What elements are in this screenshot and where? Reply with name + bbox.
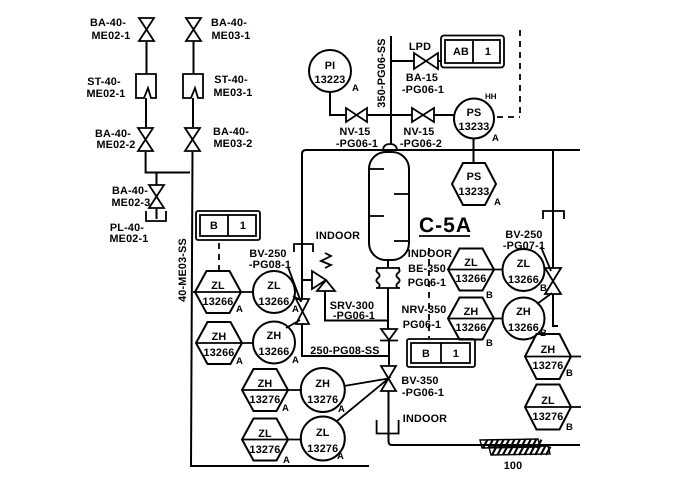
svg-text:PS: PS <box>467 171 482 183</box>
svg-text:INDOOR: INDOOR <box>408 248 452 260</box>
svg-text:INDOOR: INDOOR <box>403 413 447 425</box>
svg-text:ME02-2: ME02-2 <box>96 139 135 151</box>
svg-text:-PG07-1: -PG07-1 <box>503 240 545 252</box>
svg-text:A: A <box>292 304 299 315</box>
svg-text:ST-40-: ST-40- <box>87 76 121 88</box>
svg-text:ZH: ZH <box>315 378 330 390</box>
svg-text:PS: PS <box>467 107 482 119</box>
svg-text:ZL: ZL <box>316 427 330 439</box>
svg-text:BA-40-: BA-40- <box>112 185 148 197</box>
svg-text:A: A <box>338 404 345 415</box>
svg-text:250-PG08-SS: 250-PG08-SS <box>310 345 379 357</box>
svg-text:-PG08-1: -PG08-1 <box>249 259 291 271</box>
svg-text:B: B <box>566 368 573 379</box>
svg-text:C-5A: C-5A <box>419 214 472 237</box>
svg-text:1: 1 <box>485 46 491 58</box>
svg-text:13233: 13233 <box>458 121 489 133</box>
svg-text:B: B <box>486 338 493 349</box>
svg-text:13276: 13276 <box>532 360 563 372</box>
svg-text:13266: 13266 <box>508 322 539 334</box>
svg-text:A: A <box>292 355 299 366</box>
svg-text:ME03-1: ME03-1 <box>213 87 252 99</box>
svg-text:ZL: ZL <box>258 428 272 440</box>
svg-text:13266: 13266 <box>508 274 539 286</box>
svg-text:LPD: LPD <box>409 41 431 53</box>
svg-text:-PG06-1: -PG06-1 <box>336 138 378 150</box>
svg-text:40-ME03-SS: 40-ME03-SS <box>177 238 189 302</box>
svg-text:ZH: ZH <box>464 306 479 318</box>
svg-text:13266: 13266 <box>258 296 289 308</box>
svg-text:-PG06-2: -PG06-2 <box>400 138 442 150</box>
svg-text:-PG06-1: -PG06-1 <box>402 84 444 96</box>
svg-text:A: A <box>492 133 499 144</box>
svg-text:A: A <box>352 83 359 94</box>
svg-text:13266: 13266 <box>203 347 234 359</box>
svg-text:A: A <box>337 451 344 462</box>
svg-text:1: 1 <box>240 220 246 232</box>
svg-text:ZH: ZH <box>516 306 531 318</box>
svg-text:B: B <box>540 283 547 294</box>
svg-text:ZH: ZH <box>541 344 556 356</box>
svg-text:13276: 13276 <box>249 444 280 456</box>
svg-text:-PG06-1: -PG06-1 <box>333 310 375 322</box>
svg-text:ZL: ZL <box>211 280 225 292</box>
svg-text:ME03-2: ME03-2 <box>213 138 252 150</box>
svg-text:B: B <box>486 290 493 301</box>
svg-text:ZH: ZH <box>258 378 273 390</box>
svg-text:13276: 13276 <box>249 394 280 406</box>
svg-text:350-PG06-SS: 350-PG06-SS <box>376 38 388 107</box>
svg-text:A: A <box>236 356 243 367</box>
svg-text:B: B <box>540 328 547 339</box>
svg-text:ST-40-: ST-40- <box>214 74 248 86</box>
svg-text:ME02-1: ME02-1 <box>91 30 130 42</box>
svg-text:ZL: ZL <box>541 395 555 407</box>
svg-text:ZL: ZL <box>464 257 478 269</box>
svg-text:AB: AB <box>453 46 469 58</box>
svg-text:PI: PI <box>325 60 336 72</box>
svg-text:BA-15: BA-15 <box>406 72 438 84</box>
svg-text:BA-40-: BA-40- <box>211 17 247 29</box>
svg-text:13266: 13266 <box>455 322 486 334</box>
svg-text:13266: 13266 <box>455 273 486 285</box>
svg-text:ZL: ZL <box>267 280 281 292</box>
svg-text:HH: HH <box>485 92 497 101</box>
svg-text:ME03-1: ME03-1 <box>211 30 250 42</box>
svg-text:BE-350: BE-350 <box>408 263 446 275</box>
svg-text:PG06-1: PG06-1 <box>403 319 441 331</box>
svg-text:13233: 13233 <box>458 186 489 198</box>
svg-text:13276: 13276 <box>307 443 338 455</box>
svg-text:ZL: ZL <box>517 258 531 270</box>
svg-text:13276: 13276 <box>532 411 563 423</box>
svg-text:A: A <box>282 403 289 414</box>
svg-text:ZH: ZH <box>212 331 227 343</box>
svg-text:-PG06-1: -PG06-1 <box>402 387 444 399</box>
svg-text:BA-40-: BA-40- <box>90 17 126 29</box>
svg-text:ME02-1: ME02-1 <box>86 88 125 100</box>
svg-text:A: A <box>283 455 290 466</box>
svg-text:PG06-1: PG06-1 <box>408 277 446 289</box>
svg-text:A: A <box>494 197 501 208</box>
svg-text:ME02-1: ME02-1 <box>109 233 148 245</box>
svg-text:ME02-3: ME02-3 <box>111 197 150 209</box>
svg-text:BA-40-: BA-40- <box>213 126 249 138</box>
svg-text:NRV-350: NRV-350 <box>401 304 446 316</box>
svg-text:13276: 13276 <box>307 394 338 406</box>
svg-text:100: 100 <box>504 460 523 472</box>
svg-text:NV-15: NV-15 <box>339 126 370 138</box>
svg-text:A: A <box>236 304 243 315</box>
svg-text:13223: 13223 <box>314 74 345 86</box>
svg-text:1: 1 <box>453 348 459 360</box>
svg-text:INDOOR: INDOOR <box>316 230 360 242</box>
svg-text:B: B <box>210 220 218 232</box>
svg-text:B: B <box>422 348 430 360</box>
svg-text:B: B <box>566 422 573 433</box>
svg-text:BV-350: BV-350 <box>401 375 438 387</box>
svg-text:13266: 13266 <box>258 346 289 358</box>
svg-text:ZH: ZH <box>267 330 282 342</box>
svg-text:NV-15: NV-15 <box>403 126 434 138</box>
svg-text:13266: 13266 <box>202 296 233 308</box>
